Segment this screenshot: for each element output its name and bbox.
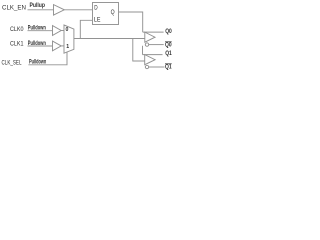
svg-text:0: 0	[66, 27, 69, 33]
wire branch to buffer B	[133, 39, 145, 62]
buffer U3 (CLK0)	[53, 26, 62, 36]
inversion bubble nQ0	[145, 43, 148, 46]
svg-text:Pullup: Pullup	[30, 2, 46, 9]
wire U3 to mux	[61, 30, 64, 32]
svg-text:Q1: Q1	[165, 51, 172, 57]
output buffer A (Q0/nQ0)	[145, 32, 155, 42]
svg-text:Q1: Q1	[165, 64, 172, 70]
wire CLK0 input	[28, 30, 53, 32]
wire U4 to mux	[61, 45, 64, 47]
svg-text:Pulldown: Pulldown	[28, 40, 46, 47]
wire nQ0 output line	[149, 44, 164, 46]
wire mux output	[74, 38, 145, 40]
overline nQ1	[165, 63, 172, 65]
wire Q1 output line	[143, 54, 163, 56]
svg-text:Pulldown: Pulldown	[29, 58, 46, 65]
buffer U4 (CLK1)	[53, 41, 62, 51]
svg-text:D: D	[94, 5, 97, 12]
svg-text:Q: Q	[111, 9, 115, 16]
wire latch Q output	[119, 12, 143, 32]
overline nQ0	[165, 41, 172, 43]
wire nQ1 output line	[149, 66, 165, 68]
buffer U1 (CLK_EN input buffer)	[54, 5, 65, 16]
wire Q0 output line	[143, 31, 164, 33]
svg-text:LE: LE	[94, 16, 101, 23]
svg-text:CLK_EN: CLK_EN	[2, 4, 26, 11]
output buffer B (Q1/nQ1)	[145, 55, 155, 65]
svg-text:Q0: Q0	[165, 43, 172, 49]
wire bubble A to B input junction	[142, 46, 144, 55]
svg-text:CLK0: CLK0	[10, 26, 24, 33]
wire LE branch	[80, 20, 92, 38]
latch U2 body	[93, 3, 119, 25]
svg-text:CLK_SEL: CLK_SEL	[2, 59, 22, 66]
svg-text:Q0: Q0	[165, 29, 172, 35]
svg-text:1: 1	[66, 44, 69, 50]
wire U1 output to latch D	[64, 9, 92, 11]
mux U5 body	[64, 25, 74, 53]
svg-text:Pulldown: Pulldown	[28, 25, 46, 32]
wire CLK_EN input	[28, 9, 54, 11]
inversion bubble nQ1	[145, 65, 148, 68]
wire CLK1 input	[28, 45, 53, 47]
svg-text:CLK1: CLK1	[10, 41, 24, 48]
wire CLK_SEL to mux select	[28, 52, 67, 65]
